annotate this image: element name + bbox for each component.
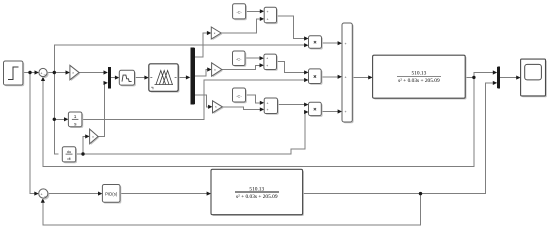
svg-text:+: +: [266, 57, 268, 61]
svg-text:s² + 0.03s + 205.09: s² + 0.03s + 205.09: [398, 78, 440, 84]
svg-text:×: ×: [92, 135, 94, 139]
svg-text:510.13: 510.13: [249, 187, 264, 193]
svg-text:+: +: [266, 18, 268, 22]
svg-text:+: +: [266, 10, 268, 14]
svg-text:+: +: [345, 75, 347, 79]
svg-text:+: +: [266, 64, 268, 68]
svg-text:-C-: -C-: [236, 10, 242, 15]
svg-text:+: +: [41, 192, 43, 196]
svg-text:×: ×: [214, 68, 216, 72]
svg-text:×: ×: [72, 71, 74, 75]
svg-text:×: ×: [214, 31, 216, 35]
svg-text:-C-: -C-: [236, 57, 242, 62]
svg-text:+: +: [266, 108, 268, 112]
svg-text:-C-: -C-: [236, 93, 242, 98]
svg-text:×: ×: [215, 105, 217, 109]
svg-text:–: –: [44, 194, 46, 198]
svg-text:1: 1: [74, 114, 77, 120]
svg-text:+: +: [345, 110, 347, 114]
svg-text:s² + 0.03s + 205.09: s² + 0.03s + 205.09: [236, 194, 278, 200]
svg-text:–: –: [44, 73, 46, 77]
svg-text:PID(s): PID(s): [105, 192, 118, 197]
svg-text:du: du: [67, 149, 71, 154]
svg-text:+: +: [266, 101, 268, 105]
svg-text:+: +: [40, 71, 42, 75]
svg-text:+: +: [345, 42, 347, 46]
svg-text:510.13: 510.13: [411, 71, 426, 77]
